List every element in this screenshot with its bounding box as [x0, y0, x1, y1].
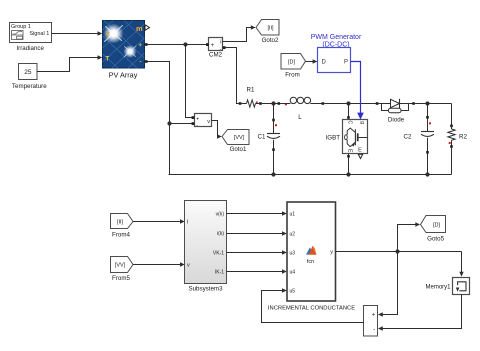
- node rail C1: [271, 172, 275, 176]
- wire Temperature to PV T: [37, 55, 102, 71]
- svg-text:u3: u3: [290, 251, 296, 257]
- wire VM v to Goto1: [212, 121, 222, 139]
- svg-text:IK-1: IK-1: [215, 270, 224, 276]
- svg-text:Goto5: Goto5: [427, 236, 444, 243]
- resistor R1: [239, 86, 262, 107]
- sum block (flipped subtract): [364, 306, 378, 337]
- svg-text:u1: u1: [290, 212, 296, 218]
- svg-text:R2: R2: [459, 133, 467, 140]
- node junction PV-: [167, 121, 171, 125]
- node y junction: [395, 249, 399, 253]
- PWM Generator block: [318, 48, 351, 73]
- node IGBT collector junction: [346, 101, 350, 105]
- wire PV- down: [148, 62, 170, 124]
- node C2 top junction: [425, 101, 429, 105]
- wire sum output to fcn u5: [262, 288, 364, 322]
- svg-text:u5: u5: [290, 289, 296, 295]
- svg-text:From: From: [285, 72, 299, 79]
- svg-text:+: +: [139, 43, 143, 49]
- PV + port: [145, 43, 148, 46]
- svg-text:CM2: CM2: [209, 51, 223, 58]
- svg-text:+: +: [372, 313, 376, 319]
- capacitor C1: [258, 104, 280, 175]
- diode D1: [376, 99, 415, 124]
- svg-text:g: g: [359, 121, 365, 124]
- goto tag Goto5: [421, 216, 446, 243]
- subsystem Subsystem3: [185, 201, 227, 293]
- svg-text:-: -: [140, 59, 142, 65]
- transistor IGBT: [326, 104, 368, 154]
- wire Subsystem3 VK-1 to fcn u3: [227, 250, 287, 254]
- svg-text:v: v: [187, 263, 190, 269]
- svg-text:Memory1: Memory1: [425, 285, 451, 291]
- node rail C2: [425, 172, 429, 176]
- wire CM2 i to Goto2: [223, 25, 256, 41]
- svg-text:R1: R1: [247, 86, 255, 93]
- PV - port: [145, 60, 148, 63]
- constant block Temperature 25: [12, 64, 47, 90]
- wire Subsystem3 IK-1 to fcn u4: [227, 269, 287, 273]
- node junction PV+: [183, 42, 187, 46]
- svg-text:C2: C2: [404, 133, 412, 140]
- svg-text:+: +: [211, 43, 215, 49]
- svg-text:E: E: [358, 148, 362, 154]
- voltage measurement VM: [192, 114, 212, 129]
- wire junction to VM -: [170, 123, 193, 125]
- wire From to PWM D: [306, 59, 318, 63]
- wire R1 to L: [262, 103, 279, 105]
- svg-text:From5: From5: [112, 275, 130, 282]
- wire L to Diode: [324, 103, 376, 105]
- svg-text:[VV]: [VV]: [115, 263, 126, 269]
- svg-text:IGBT: IGBT: [326, 135, 341, 142]
- svg-text:[VV]: [VV]: [234, 135, 245, 141]
- svg-text:L: L: [298, 114, 302, 121]
- svg-text:Goto2: Goto2: [262, 37, 279, 44]
- svg-text:Subsystem3: Subsystem3: [188, 286, 223, 293]
- svg-text:Ir: Ir: [106, 31, 111, 38]
- svg-text:D: D: [322, 59, 327, 65]
- svg-text:Temperature: Temperature: [12, 83, 47, 90]
- svg-text:C1: C1: [258, 133, 266, 140]
- svg-text:[II]: [II]: [267, 26, 274, 32]
- svg-text:u2: u2: [290, 232, 296, 238]
- wire PWM P to IGBT gate (blue): [351, 62, 364, 120]
- wire Irradiance to PV Ir: [52, 31, 103, 35]
- capacitor C2: [404, 104, 434, 175]
- svg-text:C: C: [346, 120, 352, 124]
- svg-text:v: v: [207, 119, 210, 125]
- svg-text:[D]: [D]: [288, 59, 296, 65]
- wire From4 to Subsystem3 I: [133, 219, 185, 223]
- node C1 top junction: [271, 101, 275, 105]
- svg-text:VK-1: VK-1: [213, 251, 224, 257]
- goto tag Goto1: [222, 130, 249, 154]
- node rail IGBT E: [346, 172, 350, 176]
- wire junction to ground rail: [169, 124, 171, 175]
- svg-text:PV Array: PV Array: [109, 70, 138, 79]
- resistor R2: [448, 104, 468, 175]
- PWM Generator title: [311, 34, 362, 49]
- wire y line down to Memory1: [459, 252, 463, 277]
- wire Subsystem3 i(k) to fcn u2: [227, 231, 287, 235]
- from tag From4: [111, 214, 134, 239]
- from tag From [D]: [281, 54, 306, 79]
- svg-text:y: y: [330, 250, 333, 256]
- PV Array U1: [103, 21, 145, 80]
- svg-text:T: T: [106, 55, 110, 62]
- signal builder block Irradiance: [10, 23, 52, 52]
- svg-text:25: 25: [24, 69, 32, 76]
- inductor L: [278, 97, 325, 121]
- MATLAB function block INCREMENTAL CONDUCTANCE: [268, 202, 355, 312]
- svg-text:i: i: [220, 40, 221, 46]
- wire From5 to Subsystem3 v: [133, 262, 185, 266]
- svg-text:From4: From4: [112, 231, 130, 238]
- PV m port (unconnected): [145, 25, 150, 31]
- svg-text:Goto1: Goto1: [230, 146, 247, 153]
- wire junction to VM +: [186, 45, 193, 118]
- svg-text:fcn: fcn: [307, 259, 314, 265]
- svg-text:P: P: [344, 59, 348, 65]
- wire junction to Goto5: [398, 222, 421, 251]
- svg-text:v(k): v(k): [216, 212, 225, 218]
- svg-text:Signal 1: Signal 1: [29, 31, 49, 37]
- svg-text:Group 1: Group 1: [11, 24, 31, 30]
- current measurement CM2: [206, 38, 226, 59]
- IGBT emitter wire to rail: [348, 154, 350, 175]
- svg-text:Diode: Diode: [388, 116, 405, 123]
- IGBT m port (unconnected): [358, 154, 362, 158]
- wire PV+ to CM2: [148, 44, 208, 46]
- svg-text:i(k): i(k): [217, 231, 224, 237]
- wire Diode to output node: [415, 103, 452, 105]
- wire fcn y output: [336, 251, 462, 253]
- svg-text:Irradiance: Irradiance: [16, 45, 44, 52]
- svg-text:INCREMENTAL CONDUCTANCE: INCREMENTAL CONDUCTANCE: [268, 306, 355, 312]
- wire Memory1 output to sum bottom input: [378, 295, 462, 331]
- svg-text:[II]: [II]: [117, 219, 124, 225]
- svg-text:[D]: [D]: [433, 222, 441, 228]
- wire y junction to sum top input: [378, 252, 398, 317]
- memory block Memory1: [425, 278, 469, 295]
- wire CM2 - to R1: [226, 48, 240, 104]
- wire Subsystem3 v(k) to fcn u1: [227, 211, 287, 215]
- svg-text:-: -: [373, 327, 375, 333]
- svg-text:PWM Generator: PWM Generator: [311, 34, 362, 41]
- from tag From5: [111, 257, 134, 283]
- svg-text:m: m: [136, 24, 143, 33]
- svg-text:u4: u4: [290, 270, 296, 276]
- ground rail wire: [169, 174, 452, 176]
- goto tag Goto2: [256, 20, 279, 44]
